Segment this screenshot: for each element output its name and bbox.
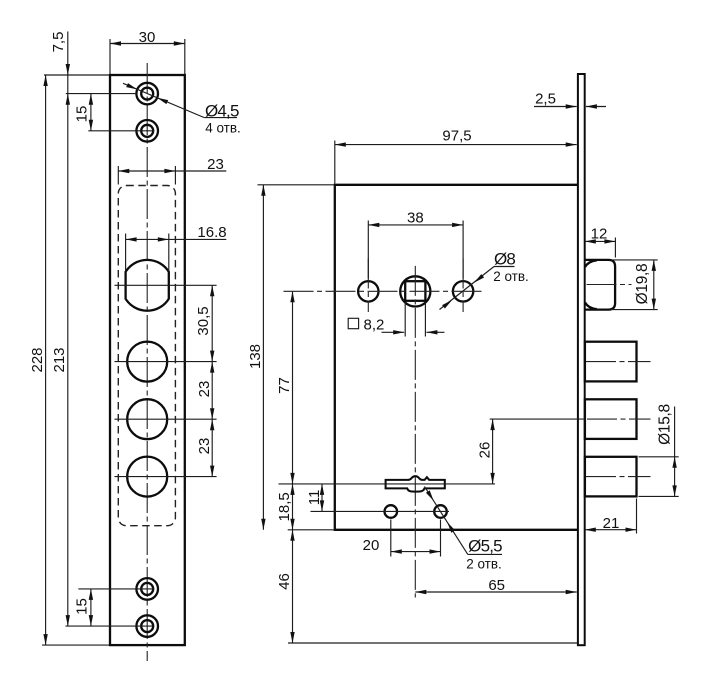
svg-text:2,5: 2,5 xyxy=(535,91,556,108)
dim 7,5 tail top xyxy=(67,32,69,76)
dim 15 bottom line xyxy=(90,589,92,626)
dim 23 cutout ext right xyxy=(174,166,176,185)
svg-text:21: 21 xyxy=(603,515,620,532)
screw hole bottom1 inner xyxy=(141,583,153,595)
svg-text:228: 228 xyxy=(29,347,46,372)
faceplate bar xyxy=(578,74,585,645)
dim 23 cutout ext left xyxy=(117,166,119,185)
centerline cylinder hole xyxy=(115,284,217,286)
svg-text:20: 20 xyxy=(363,537,380,554)
svg-text:7,5: 7,5 xyxy=(50,32,67,53)
centerline circle3 xyxy=(115,418,217,420)
dim 97,5 line xyxy=(335,144,577,146)
cylinder hole with flats xyxy=(126,260,169,311)
leader hole line xyxy=(123,83,204,117)
dim 213 line xyxy=(67,94,69,626)
leader diam 5,5 line xyxy=(425,487,468,555)
svg-text:65: 65 xyxy=(488,577,505,594)
dim 23 cutout line xyxy=(118,170,175,172)
centerline circle4 xyxy=(115,476,217,478)
screw hole top2 outer xyxy=(136,120,158,142)
deadbolt 2 xyxy=(585,399,637,439)
dim 15,8 line xyxy=(674,457,676,497)
screw hole bottom2 outer xyxy=(136,615,158,637)
svg-text:2 отв.: 2 отв. xyxy=(466,557,502,572)
latch bolt outline xyxy=(585,260,616,310)
extension hole bottom2 xyxy=(66,625,155,627)
svg-text:30: 30 xyxy=(139,29,156,46)
svg-text:23: 23 xyxy=(196,381,213,398)
latch bevel top xyxy=(585,260,597,267)
extension bar bottom xyxy=(288,642,578,644)
svg-text:213: 213 xyxy=(51,347,68,372)
svg-text:Ø5,5: Ø5,5 xyxy=(468,537,502,556)
deadbolt 1 xyxy=(585,342,637,382)
dim 65 line xyxy=(415,591,576,593)
latch centerline xyxy=(587,284,632,286)
dim 15,8 ext bottom xyxy=(639,495,679,497)
square symbol 8,2 xyxy=(348,318,358,328)
screw hole top1 inner xyxy=(141,88,153,100)
faceplate outline xyxy=(110,75,185,645)
leader diam 5,5 arrow upper xyxy=(426,490,434,501)
svg-text:18,5: 18,5 xyxy=(276,492,293,521)
svg-text:97,5: 97,5 xyxy=(442,128,471,145)
dim 15 top line xyxy=(90,94,92,131)
spindle square xyxy=(405,281,425,301)
dim 8,2 tail right xyxy=(426,331,444,333)
dim 138 ext top xyxy=(258,184,334,186)
extension hole top2 xyxy=(88,130,154,132)
fix holes centerline xyxy=(311,510,450,512)
handle hole xyxy=(358,281,378,301)
cylinder fix hole centerline vertical xyxy=(462,259,464,313)
svg-text:23: 23 xyxy=(207,156,224,173)
screw hole top1 outer xyxy=(136,83,158,105)
extension plate bottom left xyxy=(42,644,109,646)
faceplate vertical centerline xyxy=(146,63,148,661)
dim 26 line xyxy=(492,419,494,484)
dim 15,8 line upper tail xyxy=(674,407,676,457)
svg-text:12: 12 xyxy=(591,225,608,242)
fix hole left xyxy=(385,505,398,518)
dim 138 line xyxy=(262,185,264,530)
dim 23 low line xyxy=(211,419,213,476)
svg-text:16.8: 16.8 xyxy=(197,224,226,241)
dim 30,5 line xyxy=(211,285,213,361)
dim 30 line xyxy=(110,43,185,45)
dim 11 line xyxy=(321,484,323,512)
extension body bottom left xyxy=(288,529,335,531)
deadbolt 1 centerline xyxy=(586,361,651,363)
svg-text:23: 23 xyxy=(196,438,213,455)
dim 20 line xyxy=(391,551,441,553)
body outline xyxy=(335,185,578,530)
deadbolt 2 centerline xyxy=(490,418,581,420)
dim 16.8 line xyxy=(126,238,169,240)
svg-text:8,2: 8,2 xyxy=(364,316,385,333)
bolt hole circle 2 xyxy=(127,342,167,382)
svg-text:Ø8: Ø8 xyxy=(494,249,515,268)
dim 20 ext right xyxy=(440,520,442,557)
leader hole shoulder xyxy=(204,117,237,119)
leader diam8 line xyxy=(440,267,495,310)
dim 18,5 line xyxy=(292,484,294,530)
svg-text:138: 138 xyxy=(247,344,264,369)
svg-text:4 отв.: 4 отв. xyxy=(205,120,241,135)
dim 12 line xyxy=(585,240,616,242)
deadbolt 3 centerline xyxy=(586,476,651,478)
horizontal centerline holes row xyxy=(284,290,482,292)
leader arrow lower xyxy=(157,98,168,104)
dim 23 cutout tail xyxy=(175,170,226,172)
deadbolt 3 xyxy=(585,457,637,497)
screw hole bottom1 outer xyxy=(136,578,158,600)
dim 30 extension left xyxy=(109,39,111,74)
dim 30 extension right xyxy=(184,39,186,74)
dim 19,8 ext bottom xyxy=(611,309,658,311)
spindle circle xyxy=(400,276,430,306)
leader diam 5,5 shoulder xyxy=(468,553,502,555)
svg-text:30,5: 30,5 xyxy=(195,306,212,335)
dim 16.8 ext left xyxy=(125,234,127,272)
svg-text:46: 46 xyxy=(276,573,293,590)
dim 16.8 tail xyxy=(169,238,227,240)
bolt hole circle 4 xyxy=(127,457,167,497)
dim 16.8 ext right xyxy=(168,234,170,272)
dim 8,2 tail left xyxy=(382,331,405,333)
dim 2,5 tail left xyxy=(534,106,577,108)
dim 8,2 ext right xyxy=(424,302,426,337)
dim 38 ext right xyxy=(462,221,464,279)
extension plate top left xyxy=(44,74,109,76)
svg-text:26: 26 xyxy=(477,442,494,459)
dim 7,5 connector xyxy=(67,75,69,94)
dim 228 line xyxy=(45,75,47,645)
handle hole centerline vertical xyxy=(367,259,369,313)
lever extension line xyxy=(279,483,496,485)
svg-text:38: 38 xyxy=(407,210,424,227)
dim 21 line xyxy=(585,529,637,531)
dim 19,8 ext top xyxy=(611,259,658,261)
dim 77 line xyxy=(292,291,294,484)
leader diam 5,5 arrow lower xyxy=(447,522,455,533)
dim 8,2 ext left xyxy=(404,302,406,337)
screw hole bottom2 inner xyxy=(141,620,153,632)
leader diam8 arrow lower xyxy=(442,300,452,309)
extension hole top1 xyxy=(66,93,136,95)
dim 15,8 ext top xyxy=(639,456,679,458)
dim 2,5 tail right xyxy=(586,106,606,108)
svg-text:77: 77 xyxy=(276,377,293,394)
leader diam8 arrow upper xyxy=(474,274,484,283)
latch bevel bottom xyxy=(585,303,597,310)
extension hole bottom1 xyxy=(78,588,154,590)
dim 23 mid line xyxy=(211,362,213,420)
fix hole right xyxy=(434,505,447,518)
dim 20 ext left xyxy=(390,520,392,557)
dim 12 ext xyxy=(614,238,616,258)
lever plate xyxy=(386,476,445,491)
dim 19,8 line xyxy=(653,260,655,310)
centerline circle2 xyxy=(115,361,217,363)
cylinder fix hole xyxy=(453,281,473,301)
dim 97,5 ext left xyxy=(334,141,336,184)
dim 21 ext xyxy=(636,499,638,534)
screw hole top2 inner xyxy=(141,125,153,137)
svg-text:Ø19,8: Ø19,8 xyxy=(634,264,651,305)
svg-text:15: 15 xyxy=(74,106,91,123)
leader arrow upper xyxy=(126,83,137,89)
svg-text:2 отв.: 2 отв. xyxy=(493,269,529,284)
dashed cutout rounded rect xyxy=(118,186,175,526)
dim 38 line xyxy=(368,224,463,226)
dim 38 ext left xyxy=(367,221,369,279)
svg-text:Ø15,8: Ø15,8 xyxy=(657,404,674,445)
bolt hole circle 3 xyxy=(127,399,167,439)
long vertical centerline spindle xyxy=(414,266,416,598)
svg-text:Ø4,5: Ø4,5 xyxy=(205,101,239,120)
dim 46 line xyxy=(292,530,294,643)
leader diam8 shoulder xyxy=(494,266,515,268)
svg-text:11: 11 xyxy=(306,490,323,506)
svg-text:15: 15 xyxy=(74,598,91,615)
